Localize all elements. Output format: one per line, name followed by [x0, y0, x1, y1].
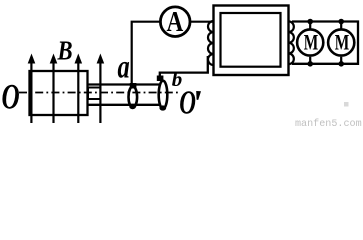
motor M1 circle — [297, 29, 323, 55]
shaft outer lines to slip rings — [88, 85, 160, 105]
wire ammeter to transformer — [190, 21, 214, 23]
junction dot M2 top — [338, 19, 344, 25]
svg-text:B: B — [57, 37, 73, 66]
motor M2 leads — [340, 22, 342, 64]
primary winding — [208, 21, 213, 65]
transformer core outer — [214, 6, 289, 76]
field arrow 1 — [28, 54, 36, 124]
junction dot M1 top — [307, 19, 313, 25]
motor M2 circle — [328, 29, 354, 55]
junction dot M2 bottom — [338, 61, 344, 67]
ammeter label A — [167, 6, 184, 38]
wire secondary to motors — [292, 22, 358, 64]
ammeter A — [160, 7, 190, 37]
watermark speck — [344, 102, 349, 107]
ring b bottom thickening — [159, 105, 166, 110]
svg-text:M: M — [335, 31, 350, 55]
svg-text:M: M — [304, 31, 319, 55]
motor M1 leads — [309, 22, 311, 64]
wire ring a to ammeter — [132, 22, 160, 84]
field arrow 2 — [50, 54, 58, 124]
secondary winding — [289, 21, 294, 64]
brush at ring b — [157, 76, 164, 82]
svg-text:O: O — [2, 76, 20, 117]
field arrow 3 — [75, 54, 83, 124]
prime mark of O' — [196, 91, 201, 100]
transformer core inner — [221, 13, 281, 67]
node O label — [2, 76, 20, 117]
svg-text:b: b — [172, 67, 183, 91]
shaft end box — [88, 88, 101, 100]
svg-text:A: A — [167, 6, 184, 38]
slip ring a — [129, 86, 138, 107]
label a — [118, 49, 130, 85]
coil frame (square) — [30, 71, 88, 115]
brush at ring a — [130, 83, 137, 89]
slip ring b — [159, 81, 168, 109]
ring a bottom thickening — [129, 105, 135, 109]
svg-text:a: a — [118, 49, 130, 85]
wire ring b to transformer primary — [160, 56, 208, 78]
svg-text:manfen5.com: manfen5.com — [295, 118, 362, 128]
junction dot M1 bottom — [307, 61, 313, 67]
axis line OO' (dash-dot) — [19, 92, 178, 94]
motor M1 label — [304, 31, 319, 55]
node O' label — [179, 84, 196, 121]
field arrow 4 — [97, 54, 105, 124]
motor M2 label — [335, 31, 350, 55]
field label B — [57, 37, 73, 66]
